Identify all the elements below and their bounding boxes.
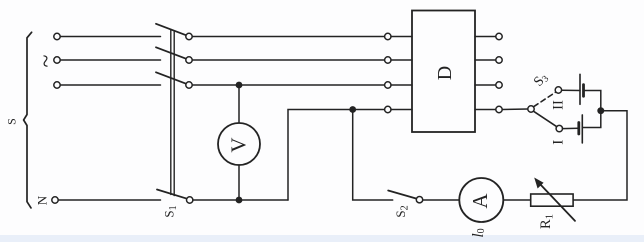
wire II to battery II <box>562 89 580 91</box>
switch S3 contact II <box>555 87 561 93</box>
voltmeter V <box>218 123 260 165</box>
junction phase 3 / voltmeter <box>236 82 243 89</box>
rheostat arrow <box>539 183 575 221</box>
switch S1 terminal pole 1 <box>186 33 192 39</box>
switch S1 blade pole 1 <box>156 24 186 35</box>
wire phase 3 to S1 <box>60 84 160 86</box>
wire branch down to S2 <box>353 110 393 201</box>
svg-text:l0: l0 <box>470 228 487 237</box>
terminal phase 3 <box>54 82 60 88</box>
switch S3 blade to II (dashed) <box>534 92 556 106</box>
switch S1 terminal pole 2 <box>186 57 192 63</box>
D right terminal 3 <box>475 84 496 86</box>
wire neutral riser <box>288 110 385 201</box>
wire junction to right edge down to R1 <box>573 111 627 200</box>
switch S3 contact I <box>556 125 562 131</box>
brace S (three-phase supply) <box>24 32 32 208</box>
switch S3 blade to I <box>534 111 557 126</box>
wire phase 2 to S1 <box>60 59 160 61</box>
switch S1 terminal pole N <box>187 197 193 203</box>
wire pole 1 to D <box>192 36 384 38</box>
D left terminal 4 <box>385 106 391 112</box>
D left terminal 2 <box>385 57 391 63</box>
ammeter A <box>459 178 503 222</box>
D right terminal 4 <box>475 109 496 111</box>
svg-text:N: N <box>34 195 49 205</box>
switch S1 tie bar <box>170 30 172 195</box>
switch S1 blade pole 3 <box>156 72 186 83</box>
battery cell I <box>577 123 580 135</box>
wire battery II to junction <box>584 91 601 111</box>
svg-text:V: V <box>226 137 250 152</box>
wire D output to S3 <box>502 108 528 111</box>
svg-text:R1: R1 <box>538 214 556 229</box>
wire N line to riser <box>193 199 288 201</box>
D left terminal 1 <box>385 33 391 39</box>
svg-text:II: II <box>551 100 567 110</box>
D right terminal 2 <box>475 59 496 61</box>
junction battery output <box>597 107 604 114</box>
wire pole 3 to D <box>192 84 384 86</box>
resistor R1 (rheostat) <box>531 194 573 206</box>
svg-text:S1: S1 <box>161 205 179 217</box>
terminal phase 2 <box>54 57 60 63</box>
wire N to S1 <box>58 199 160 201</box>
D right terminal 1 <box>475 36 496 38</box>
wire phase 1 to S1 <box>60 36 160 38</box>
switch S2 blade <box>388 191 416 199</box>
svg-text:S: S <box>4 118 18 125</box>
switch S2 contact <box>416 197 422 203</box>
terminal phase 1 <box>54 33 60 39</box>
battery cell II <box>579 74 581 104</box>
wire S2 to ammeter <box>423 199 460 201</box>
wire voltmeter top <box>238 85 240 123</box>
wire ammeter to R1 <box>504 199 531 201</box>
junction node on line 4 <box>349 106 356 113</box>
svg-text:I: I <box>550 140 566 145</box>
transformer box D <box>412 11 475 133</box>
junction voltmeter / N line <box>236 197 243 204</box>
wire pole 2 to D <box>192 59 384 61</box>
switch S3 common pole <box>528 106 534 112</box>
bottom band <box>0 235 644 242</box>
wire I to battery I <box>563 127 579 129</box>
switch S1 terminal pole 3 <box>186 82 192 88</box>
terminal N <box>52 197 58 203</box>
switch S1 blade pole 2 <box>156 47 186 58</box>
switch S1 blade pole N <box>157 190 187 199</box>
D left terminal 3 <box>385 82 391 88</box>
svg-text:S3: S3 <box>531 70 551 90</box>
svg-text:A: A <box>468 193 492 209</box>
wire voltmeter bottom <box>238 165 240 200</box>
svg-text:S2: S2 <box>393 205 411 217</box>
wire battery I to junction <box>582 111 601 128</box>
svg-text:D: D <box>434 66 456 80</box>
